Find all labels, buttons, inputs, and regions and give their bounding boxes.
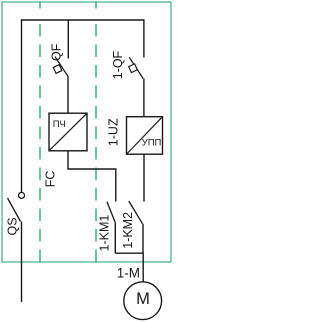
svg-text:1-UZ: 1-UZ	[107, 118, 121, 146]
circuit breaker QF blade	[55, 57, 68, 77]
svg-text:QS: QS	[5, 217, 19, 235]
wire: KM1 to bottom bus	[114, 223, 116, 253]
contactor contact 1-KM1 blade	[107, 202, 115, 223]
wire: top supply bus	[22, 19, 144, 21]
contactor contact 1-KM2 blade	[129, 201, 143, 224]
motor 1-M circle	[124, 282, 162, 320]
circuit breaker 1-QF blade	[129, 57, 143, 78]
wire: QF to frequency converter	[67, 76, 69, 113]
wire: left feeder down to QS	[21, 19, 23, 192]
svg-text:FC: FC	[43, 171, 57, 188]
wire: below QS down to drawing bottom	[21, 222, 23, 303]
wire: soft starter output down to KM2	[143, 154, 145, 201]
svg-text:QF: QF	[49, 43, 63, 61]
wire: 1-QF to soft starter	[143, 79, 145, 117]
disconnect switch QS blade	[8, 198, 21, 222]
wire: bottom bus joining KM1/KM2 to motor	[115, 253, 143, 282]
svg-text:1-M: 1-M	[117, 265, 140, 280]
svg-text:1-QF: 1-QF	[111, 50, 125, 79]
svg-text:ПЧ: ПЧ	[53, 119, 66, 130]
wire: 1-QF branch from bus end	[143, 19, 145, 57]
frequency converter box (FC)	[49, 113, 87, 151]
cabinet boundary dashed line (left, x=40)	[39, 2, 41, 9]
wire: QF branch from bus	[67, 20, 69, 59]
circuit breaker QF cross square	[53, 65, 62, 74]
svg-text:M: M	[136, 290, 150, 308]
drawing frame (green border)	[2, 2, 171, 262]
disconnect switch QS hinge circle	[19, 192, 25, 198]
soft starter box 1-UZ	[127, 117, 163, 155]
svg-text:1-KM1: 1-KM1	[98, 215, 112, 252]
svg-text:1-KM2: 1-KM2	[121, 212, 135, 249]
cabinet boundary dashed line (middle, x=96)	[95, 2, 97, 9]
wire: KM2 to bottom bus	[142, 224, 144, 253]
svg-text:УПП: УПП	[142, 138, 162, 149]
circuit breaker 1-QF cross square	[129, 64, 138, 73]
wire: FC output down, over to KM1	[68, 151, 116, 202]
